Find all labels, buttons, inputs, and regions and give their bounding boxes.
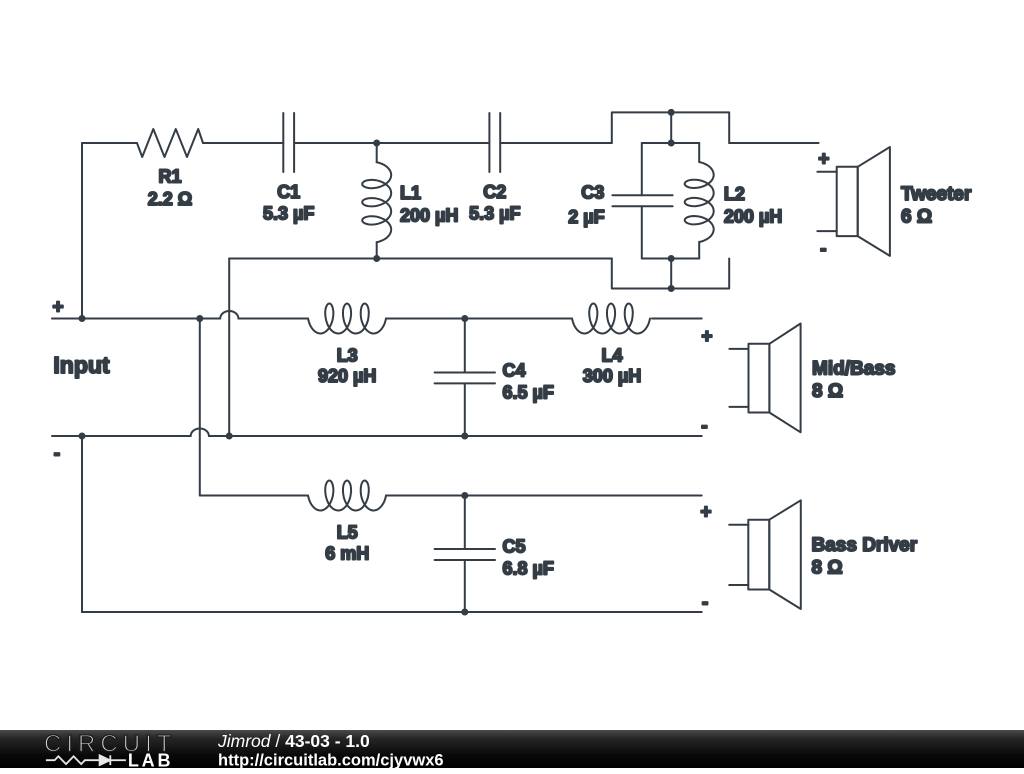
node junction [461,492,468,499]
svg-text:L3: L3 [337,346,358,366]
wire [670,112,672,143]
logo resistor-diode squiggle [46,755,126,765]
wire tweeter return [229,258,612,260]
wire [386,495,702,497]
svg-text:+: + [53,297,64,318]
wire bottom bypass around C3/L2 [612,259,729,289]
capacitor C4 [435,319,554,437]
wire [203,142,283,144]
svg-text:http://circuitlab.com/cjyvwx6: http://circuitlab.com/cjyvwx6 [218,751,444,769]
capacitor C3 [568,143,672,259]
wire hop over vertical [191,429,209,436]
wire hop over vertical [220,311,238,319]
svg-text:6 mH: 6 mH [325,544,369,564]
svg-text:Jimrod / 43-03 - 1.0: Jimrod / 43-03 - 1.0 [217,731,370,751]
wire vertical to L5 row [199,319,201,496]
svg-text:C5: C5 [503,537,526,557]
wire [729,142,818,144]
svg-text:6.5 µF: 6.5 µF [503,382,554,402]
inductor L3 [308,304,386,387]
svg-text:Bass Driver: Bass Driver [812,535,918,556]
svg-text:200 µH: 200 µH [724,206,782,226]
svg-text:-: - [701,416,707,437]
inductor L2 [685,143,783,259]
svg-text:C4: C4 [503,360,526,380]
node Input + rail [52,318,220,320]
wire [81,436,83,612]
svg-text:+: + [701,326,712,347]
capacitor C5 [435,496,554,613]
wire inner top of C3/L2 [642,142,699,144]
svg-text:2.2 Ω: 2.2 Ω [148,189,192,209]
speaker Mid/Bass [701,324,895,438]
svg-text:+: + [700,502,711,523]
svg-text:L4: L4 [601,346,622,366]
capacitor C2 [469,113,520,224]
capacitor C1 [263,113,314,224]
wire top bypass around C3/L2 [612,112,729,143]
node junction [668,109,675,116]
wire [652,318,702,320]
wire Input - rail [52,435,191,437]
inductor L4 [572,304,650,387]
node Input terminals [53,297,110,464]
svg-text:Mid/Bass: Mid/Bass [812,359,895,380]
wire vertical to tweeter return [228,259,230,437]
svg-text:+: + [818,149,829,170]
wire [82,611,702,613]
node junction [196,315,203,322]
wire [209,435,702,437]
speaker Tweeter [817,147,972,260]
svg-text:-: - [820,239,826,260]
wire inner bottom of C3/L2 [642,258,699,260]
svg-text:-: - [54,443,60,464]
wire [500,142,612,144]
svg-text:Input: Input [53,352,110,378]
node junction [226,433,233,440]
svg-text:5.3 µF: 5.3 µF [469,204,520,224]
node junction [79,433,86,440]
wire [200,495,308,497]
svg-text:R1: R1 [158,167,181,187]
svg-text:8 Ω: 8 Ω [812,558,843,579]
wire [82,142,137,144]
wire [238,318,308,320]
wire [386,318,572,320]
node junction [79,315,86,322]
node junction [461,315,468,322]
svg-text:L5: L5 [337,523,358,543]
resistor R1 [137,129,203,209]
node junction [668,255,675,262]
wire [294,142,377,144]
node junction [461,609,468,616]
svg-text:C1: C1 [277,182,300,202]
svg-text:C3: C3 [581,183,604,203]
svg-text:5.3 µF: 5.3 µF [263,204,314,224]
node junction [461,433,468,440]
svg-text:C2: C2 [483,182,506,202]
svg-text:300 µH: 300 µH [583,366,641,386]
svg-text:-: - [702,593,708,614]
speaker Bass Driver [700,500,917,613]
node junction [668,140,675,147]
svg-text:L2: L2 [724,184,745,204]
svg-text:200 µH: 200 µH [400,206,458,226]
node junction [668,285,675,292]
inductor L1 [362,143,458,259]
svg-text:LAB: LAB [128,750,173,768]
svg-text:2 µF: 2 µF [568,207,604,227]
svg-text:6 Ω: 6 Ω [901,206,932,227]
node junction [373,255,380,262]
svg-text:920 µH: 920 µH [318,366,376,386]
inductor L5 [308,481,386,564]
svg-text:L1: L1 [400,183,421,203]
wire [377,142,490,144]
svg-text:8 Ω: 8 Ω [812,381,843,402]
svg-text:6.8 µF: 6.8 µF [503,559,554,579]
wire [81,143,83,319]
node junction [373,140,380,147]
wire [670,259,672,289]
svg-text:Tweeter: Tweeter [901,184,972,205]
